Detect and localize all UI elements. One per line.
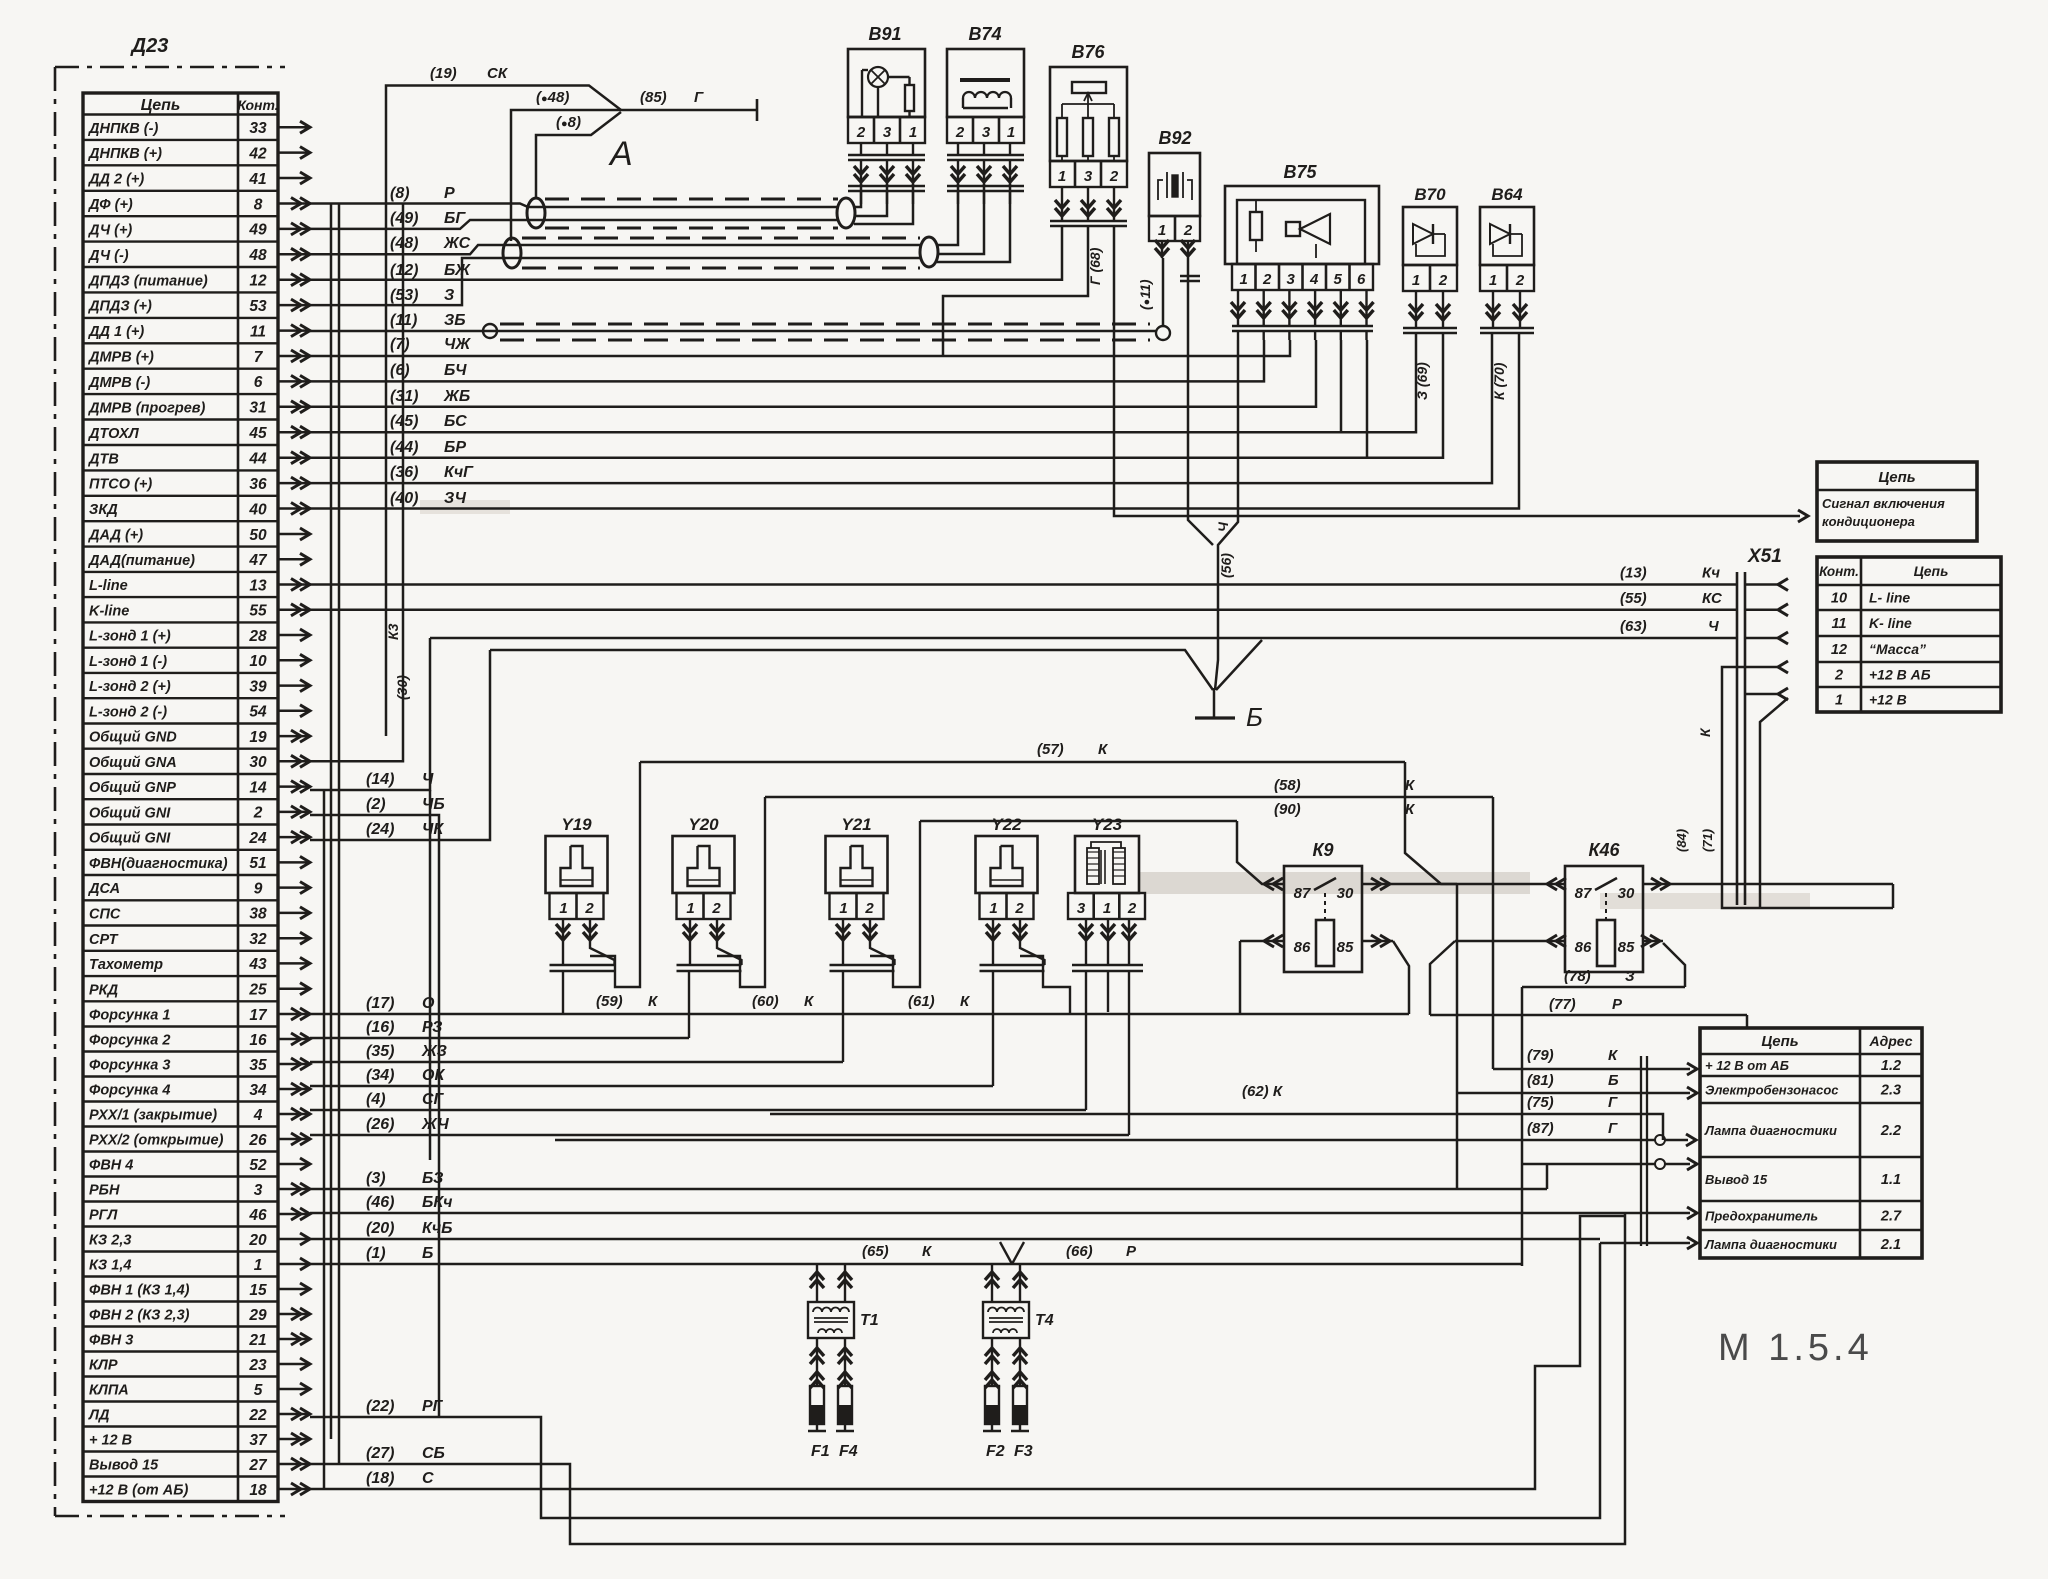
svg-text:ЛД: ЛД — [88, 1408, 110, 1424]
valve pin1 drop to feed wire — [689, 942, 691, 965]
svg-text:21: 21 — [248, 1332, 266, 1349]
svg-text:ДЧ (-): ДЧ (-) — [87, 248, 129, 264]
pin arrow row 55 — [278, 609, 308, 612]
svg-text:(78): (78) — [1564, 968, 1591, 985]
svg-text:Общий GNI: Общий GNI — [89, 806, 171, 822]
svg-text:В92: В92 — [1158, 128, 1191, 148]
svg-text:1: 1 — [989, 900, 997, 917]
K46 pin85 wire to (78)З — [1642, 940, 1663, 943]
svg-text:БР: БР — [444, 439, 466, 456]
B76 pin3 lead Г(68) — [943, 227, 1088, 356]
GNA riser with labels К3 (30) — [310, 204, 403, 761]
svg-text:(61): (61) — [908, 993, 935, 1010]
K46 pin87 wire from (57)К — [1405, 762, 1565, 884]
svg-text:(24): (24) — [366, 821, 394, 838]
Y23 connector — [1072, 964, 1143, 967]
pin arrow row 32 — [278, 937, 308, 940]
svg-text:F4: F4 — [839, 1443, 858, 1460]
pin arrow row 47 — [278, 558, 308, 561]
svg-text:РХХ/1 (закрытие): РХХ/1 (закрытие) — [89, 1108, 217, 1124]
svg-text:ДСА: ДСА — [87, 881, 120, 897]
svg-text:ДНПКВ (+): ДНПКВ (+) — [87, 146, 162, 162]
svg-text:L-зонд 1 (+): L-зонд 1 (+) — [89, 629, 171, 645]
pin arrow row 37 — [278, 1438, 308, 1441]
svg-text:(11): (11) — [390, 312, 417, 329]
shield cable 2 dashes and ovals — [522, 237, 920, 240]
B75 pin5 drop — [1340, 340, 1343, 432]
pin arrow row 43 — [278, 962, 308, 965]
valve pin2 jog — [1020, 942, 1045, 965]
svg-text:Y21: Y21 — [841, 815, 871, 834]
svg-text:2.7: 2.7 — [1880, 1209, 1902, 1225]
svg-text:С: С — [422, 1470, 434, 1487]
svg-text:(2): (2) — [366, 796, 386, 813]
svg-text:З: З — [444, 287, 454, 304]
svg-text:19: 19 — [249, 729, 267, 746]
Y19 arrows — [562, 919, 564, 942]
svg-text:ЧЖ: ЧЖ — [444, 336, 471, 353]
svg-text:Y22: Y22 — [991, 815, 1022, 834]
svg-text:Цепь: Цепь — [1878, 469, 1915, 486]
svg-text:СБ: СБ — [422, 1445, 445, 1462]
pin arrow row 3 — [278, 1188, 308, 1191]
pin arrow row 24 — [278, 836, 308, 839]
svg-text:12: 12 — [1831, 642, 1847, 658]
svg-text:К9: К9 — [1312, 840, 1333, 860]
svg-text:2: 2 — [253, 805, 263, 822]
wire (48) ЖС into shielded cable 2 — [310, 245, 920, 254]
wire (57) К — [640, 761, 1405, 764]
svg-text:2: 2 — [1183, 222, 1193, 239]
svg-text:ЗЧ: ЗЧ — [444, 490, 467, 507]
svg-text:24: 24 — [248, 830, 267, 847]
svg-text:85: 85 — [1337, 939, 1354, 956]
svg-text:40: 40 — [248, 501, 267, 518]
svg-text:36: 36 — [249, 476, 267, 493]
svg-text:(22): (22) — [366, 1398, 394, 1415]
pin arrow row 50 — [278, 533, 308, 536]
svg-text:3: 3 — [1287, 271, 1296, 288]
pin arrow row 16 — [278, 1038, 308, 1041]
ignition coil Т4 — [983, 1302, 1029, 1338]
pin arrow row 26 — [278, 1138, 308, 1141]
В70 connector + arrows — [1403, 327, 1457, 330]
svg-text:2: 2 — [584, 900, 594, 917]
K46 pin86 wire to (77)Р — [1455, 940, 1565, 943]
X51 +12 feeds from K46 pin30 — [1722, 667, 1893, 908]
pin arrow row 8 — [278, 202, 308, 205]
pin arrow row 20 — [278, 1238, 308, 1241]
wire (3) БЗ — [310, 1188, 1547, 1191]
svg-text:К (70): К (70) — [1491, 362, 1507, 400]
svg-text:86: 86 — [1294, 939, 1311, 956]
wire (58) К — [765, 796, 1493, 799]
svg-text:Y20: Y20 — [688, 815, 719, 834]
B76 arrows — [1050, 220, 1127, 223]
svg-text:ФВН 2 (КЗ 2,3): ФВН 2 (КЗ 2,3) — [89, 1308, 190, 1324]
svg-text:(40): (40) — [390, 490, 418, 507]
svg-text:ДД 2 (+): ДД 2 (+) — [87, 172, 144, 188]
svg-text:4: 4 — [1309, 271, 1319, 288]
svg-text:Цепь: Цепь — [1761, 1033, 1798, 1050]
svg-text:КЛПА: КЛПА — [89, 1383, 129, 1399]
svg-text:КчБ: КчБ — [422, 1220, 453, 1237]
svg-text:K-line: K-line — [89, 603, 129, 619]
svg-text:2.1: 2.1 — [1880, 1237, 1901, 1253]
svg-text:(87): (87) — [1527, 1120, 1554, 1137]
svg-text:(4): (4) — [366, 1091, 386, 1108]
svg-text:Т4: Т4 — [1035, 1312, 1054, 1329]
svg-text:СРТ: СРТ — [89, 932, 119, 948]
svg-text:6: 6 — [1357, 271, 1366, 288]
wire (35) ЖЗ to Y21 — [310, 1061, 843, 1064]
svg-text:Конт.: Конт. — [237, 97, 278, 113]
svg-text:34: 34 — [249, 1082, 267, 1099]
svg-text:14: 14 — [249, 779, 267, 796]
ECU connector D23 dashed outline — [54, 67, 57, 1516]
svg-text:K- line: K- line — [1869, 615, 1912, 631]
svg-text:ДМРВ (прогрев): ДМРВ (прогрев) — [87, 400, 206, 416]
svg-text:+12 В АБ: +12 В АБ — [1869, 667, 1931, 683]
pin arrow row 48 — [278, 253, 308, 256]
svg-text:Вывод 15: Вывод 15 — [89, 1458, 159, 1474]
svg-text:(18): (18) — [366, 1470, 394, 1487]
svg-text:(14): (14) — [366, 771, 394, 788]
svg-text:кондиционера: кондиционера — [1822, 514, 1915, 529]
svg-text:БЧ: БЧ — [444, 362, 467, 379]
pin arrow row 28 — [278, 634, 308, 637]
svg-text:РГ: РГ — [422, 1398, 444, 1415]
wire Ч (56) from B75 pin1 to node Б — [1215, 340, 1238, 690]
wire (26) ЖЧ to Y23 — [310, 1134, 1129, 1137]
svg-text:Кч: Кч — [1702, 565, 1720, 582]
svg-text:Общий GNP: Общий GNP — [89, 780, 176, 796]
T4 V-merge — [1000, 1242, 1012, 1264]
B92 pin2 lead to ground node Б — [1188, 258, 1213, 545]
svg-text:20: 20 — [248, 1232, 267, 1249]
svg-text:2: 2 — [1127, 900, 1137, 917]
coil primary lead — [1019, 1264, 1021, 1302]
svg-text:10: 10 — [1831, 591, 1847, 607]
svg-text:ЖБ: ЖБ — [443, 388, 470, 405]
svg-text:16: 16 — [249, 1032, 267, 1049]
svg-text:Общий GNI: Общий GNI — [89, 831, 171, 847]
svg-text:4: 4 — [253, 1107, 263, 1124]
svg-text:2: 2 — [1834, 668, 1843, 684]
svg-text:ДЧ (+): ДЧ (+) — [87, 223, 132, 239]
svg-text:2: 2 — [955, 124, 965, 141]
valve pin1 drop to feed wire — [842, 942, 844, 965]
svg-text:ЗБ: ЗБ — [444, 312, 466, 329]
pin arrow row 27 — [278, 1463, 308, 1466]
svg-text:3: 3 — [1084, 168, 1093, 185]
svg-text:23: 23 — [248, 1357, 267, 1374]
svg-text:ДТОХЛ: ДТОХЛ — [87, 426, 140, 442]
wire (63) Ч ground to X51 — [430, 637, 1737, 640]
shield cable 1 dashes and ovals — [545, 198, 838, 201]
svg-text:(46): (46) — [366, 1194, 394, 1211]
pin arrow row 7 — [278, 355, 308, 358]
pin arrow row 10 — [278, 659, 308, 662]
valve connector double line — [830, 964, 895, 967]
svg-text:31: 31 — [249, 400, 266, 417]
wire (87) Г — [555, 1139, 1655, 1142]
pin arrow row 12 — [278, 278, 308, 281]
pin arrow row 23 — [278, 1363, 308, 1366]
svg-text:8: 8 — [254, 196, 263, 213]
svg-text:Форсунка 4: Форсунка 4 — [89, 1083, 170, 1099]
wire (18) С staircase — [310, 1216, 1625, 1489]
svg-text:Р: Р — [1612, 996, 1623, 1013]
svg-text:2: 2 — [1109, 168, 1119, 185]
svg-text:(62) К: (62) К — [1242, 1083, 1284, 1100]
svg-text:86: 86 — [1575, 939, 1592, 956]
coil primary lead — [991, 1264, 993, 1302]
table: fuse box circuits — [1700, 1028, 1922, 1258]
svg-text:ОК: ОК — [422, 1067, 445, 1084]
valve pin2 risers to relay wires — [590, 762, 640, 987]
svg-text:БЖ: БЖ — [444, 262, 471, 279]
svg-text:ДНПКВ (-): ДНПКВ (-) — [87, 121, 158, 137]
svg-text:27: 27 — [248, 1457, 268, 1474]
B92 arrows — [1161, 241, 1163, 258]
svg-text:ДАД (+): ДАД (+) — [87, 528, 143, 544]
svg-text:1.2: 1.2 — [1881, 1058, 1901, 1074]
svg-text:L-зонд 2 (+): L-зонд 2 (+) — [89, 679, 171, 695]
ground wires (14)Ч (2)ЧБ (24)ЧК — [310, 638, 430, 790]
svg-text:22: 22 — [248, 1407, 267, 1424]
svg-text:Цепь: Цепь — [141, 97, 181, 114]
svg-text:(85): (85) — [640, 89, 667, 106]
pin arrow row 31 — [278, 406, 308, 409]
svg-text:(20): (20) — [366, 1220, 394, 1237]
B76 pin2 lead to A/C signal wire — [1114, 227, 1800, 516]
svg-text:33: 33 — [249, 120, 267, 137]
svg-text:Т1: Т1 — [860, 1312, 879, 1329]
svg-text:Б: Б — [1608, 1072, 1619, 1089]
wire (81) Б — [1457, 1092, 1690, 1095]
svg-text:11: 11 — [250, 323, 266, 340]
wire (53) З into shielded cable 2 — [310, 258, 920, 305]
svg-text:1: 1 — [1835, 693, 1843, 709]
pin arrow row 34 — [278, 1088, 308, 1091]
svg-text:38: 38 — [249, 906, 267, 923]
svg-text:СПС: СПС — [89, 907, 121, 923]
svg-text:18: 18 — [249, 1482, 267, 1499]
svg-text:Д23: Д23 — [130, 35, 169, 57]
svg-text:(17): (17) — [366, 995, 394, 1012]
svg-text:1: 1 — [1158, 222, 1166, 239]
pin arrow row 41 — [278, 177, 308, 180]
svg-text:28: 28 — [248, 628, 267, 645]
svg-text:45: 45 — [248, 425, 267, 442]
svg-text:2: 2 — [711, 900, 721, 917]
wire Вывод 15 feed with junction — [1522, 1163, 1655, 1166]
svg-text:Ч: Ч — [1215, 521, 1231, 532]
wire (19) СК to node A — [386, 86, 621, 737]
svg-text:1: 1 — [1489, 272, 1497, 289]
svg-text:К46: К46 — [1588, 840, 1620, 860]
svg-text:54: 54 — [249, 704, 267, 721]
pin arrow row 44 — [278, 456, 308, 459]
svg-text:2: 2 — [1262, 271, 1272, 288]
valve pin2 jog — [590, 942, 615, 965]
svg-text:О: О — [422, 995, 435, 1012]
pin arrow row 4 — [278, 1113, 308, 1116]
svg-text:ЖЗ: ЖЗ — [421, 1043, 447, 1060]
node Б slant to (63) Ч — [1216, 640, 1262, 690]
svg-text:(6): (6) — [390, 362, 410, 379]
svg-text:1: 1 — [1007, 124, 1015, 141]
svg-text:Y23: Y23 — [1092, 815, 1123, 834]
svg-text:(75): (75) — [1527, 1094, 1554, 1111]
K46 pin30 wire to X51 +12V — [1642, 883, 1893, 886]
coil primary lead — [816, 1264, 818, 1302]
spark plug F2 — [991, 1338, 993, 1386]
svg-text:Г (68): Г (68) — [1087, 247, 1103, 285]
Y23 arrows — [1085, 919, 1087, 942]
svg-text:87: 87 — [1575, 885, 1592, 902]
svg-text:(81): (81) — [1527, 1072, 1554, 1089]
svg-text:(71): (71) — [1700, 829, 1715, 852]
wire (12) БЖ to B76 pin1 — [310, 227, 1062, 280]
svg-text:1: 1 — [1058, 168, 1066, 185]
svg-text:ДМРВ (-): ДМРВ (-) — [87, 375, 150, 391]
svg-text:ДТВ: ДТВ — [87, 451, 119, 467]
svg-text:ДФ (+): ДФ (+) — [87, 197, 133, 213]
wire (49) БГ into shielded cable 1 — [310, 220, 838, 229]
svg-text:30: 30 — [1337, 885, 1354, 902]
svg-text:БГ: БГ — [444, 210, 466, 227]
svg-text:(30): (30) — [394, 675, 410, 700]
svg-text:(34): (34) — [366, 1067, 394, 1084]
pin arrow row 38 — [278, 912, 308, 915]
svg-text:+12 В (от АБ): +12 В (от АБ) — [89, 1483, 188, 1499]
svg-text:ДМРВ (+): ДМРВ (+) — [87, 350, 154, 366]
svg-text:Общий GND: Общий GND — [89, 730, 177, 746]
pin arrow row 13 — [278, 583, 308, 586]
svg-text:3: 3 — [883, 124, 892, 141]
svg-text:F1: F1 — [811, 1443, 830, 1460]
svg-text:55: 55 — [249, 603, 267, 620]
svg-text:(7): (7) — [390, 336, 410, 353]
K9 pin87 wire from (90)К — [1237, 821, 1284, 884]
svg-text:6: 6 — [254, 374, 263, 391]
svg-text:1: 1 — [1240, 271, 1248, 288]
svg-text:37: 37 — [249, 1432, 268, 1449]
B75 pin6 drop — [1366, 340, 1369, 458]
svg-text:Цепь: Цепь — [1914, 563, 1949, 579]
svg-text:ФВН(диагностика): ФВН(диагностика) — [89, 856, 228, 872]
B74 connector + arrows — [947, 154, 1024, 157]
wire (7) ЧЖ to B75 pin3 — [310, 340, 1290, 356]
svg-text:КЛР: КЛР — [89, 1358, 118, 1374]
svg-text:35: 35 — [249, 1057, 267, 1074]
B91 leads down to cable 1 — [854, 184, 861, 207]
K9 pin85 wire down to К bus — [1362, 940, 1393, 943]
svg-text:1.1: 1.1 — [1881, 1172, 1901, 1188]
svg-text:(3): (3) — [366, 1170, 386, 1187]
svg-text:32: 32 — [249, 931, 267, 948]
pin arrow row 19 — [278, 735, 308, 738]
svg-text:(56): (56) — [1218, 553, 1234, 578]
svg-text:1: 1 — [1103, 900, 1111, 917]
svg-text:5: 5 — [1334, 271, 1343, 288]
pin arrow row 40 — [278, 507, 308, 510]
svg-text:(48): (48) — [390, 235, 418, 252]
svg-text:1: 1 — [686, 900, 694, 917]
wire (•48) — [511, 110, 621, 241]
pin arrow row 29 — [278, 1313, 308, 1316]
svg-text:2: 2 — [1438, 272, 1448, 289]
svg-text:1: 1 — [839, 900, 847, 917]
svg-text:51: 51 — [249, 855, 266, 872]
svg-text:БС: БС — [444, 413, 467, 430]
svg-text:КС: КС — [1702, 590, 1723, 607]
svg-text:Р: Р — [444, 185, 455, 202]
svg-text:Y19: Y19 — [561, 815, 592, 834]
svg-text:КчГ: КчГ — [444, 464, 474, 481]
valve connector double line — [550, 964, 615, 967]
svg-text:39: 39 — [249, 678, 267, 695]
valve connector double line — [677, 964, 742, 967]
svg-text:(19): (19) — [430, 65, 457, 82]
svg-text:(35): (35) — [366, 1043, 394, 1060]
pin arrow row 5 — [278, 1388, 308, 1391]
pin arrow row 54 — [278, 710, 308, 713]
X51 entry arrows — [1745, 583, 1778, 586]
svg-text:Конт.: Конт. — [1819, 564, 1859, 579]
node A / wire (85) Г with end bar — [621, 109, 757, 112]
svg-text:L-зонд 1 (-): L-зонд 1 (-) — [89, 654, 167, 670]
svg-text:41: 41 — [248, 171, 266, 188]
svg-text:А: А — [608, 135, 633, 173]
svg-text:(27): (27) — [366, 1445, 394, 1462]
pin arrow row 11 — [278, 329, 308, 332]
svg-text:Ч: Ч — [1708, 618, 1719, 635]
svg-text:29: 29 — [248, 1307, 267, 1324]
svg-text:(31): (31) — [390, 388, 418, 405]
svg-text:11: 11 — [1831, 616, 1846, 632]
svg-text:(●8): (●8) — [556, 114, 581, 131]
svg-text:ФВН 1 (КЗ 1,4): ФВН 1 (КЗ 1,4) — [89, 1283, 190, 1299]
svg-text:44: 44 — [248, 451, 267, 468]
wire (34) ОК to Y22 — [310, 1085, 993, 1088]
svg-text:Г: Г — [694, 89, 704, 106]
svg-text:(1): (1) — [366, 1245, 386, 1262]
ground branch wire to node Б — [490, 650, 1213, 690]
svg-text:ФВН 4: ФВН 4 — [89, 1158, 133, 1174]
wire (13) Кч L-line to X51 — [310, 583, 1737, 586]
svg-text:В64: В64 — [1491, 185, 1523, 204]
Y21 arrows — [842, 919, 844, 942]
svg-text:(84): (84) — [1674, 829, 1689, 852]
svg-text:(36): (36) — [390, 464, 418, 481]
wire (20) КчБ to lamp row — [310, 1238, 1600, 1241]
svg-text:(●11): (●11) — [1137, 279, 1153, 310]
svg-text:5: 5 — [254, 1382, 263, 1399]
svg-text:2.3: 2.3 — [1880, 1083, 1901, 1099]
wire (58)К riser to (79)К — [1492, 797, 1495, 1069]
svg-text:“Масса”: “Масса” — [1869, 641, 1926, 657]
svg-text:43: 43 — [248, 956, 267, 973]
svg-text:10: 10 — [249, 653, 267, 670]
svg-text:+ 12 В от АБ: + 12 В от АБ — [1705, 1058, 1789, 1073]
svg-text:1: 1 — [254, 1257, 263, 1274]
svg-text:ФВН 3: ФВН 3 — [89, 1333, 133, 1349]
wire (17) О / (59)(60)(61) К bus — [310, 1013, 1409, 1016]
svg-text:(79): (79) — [1527, 1047, 1554, 1064]
